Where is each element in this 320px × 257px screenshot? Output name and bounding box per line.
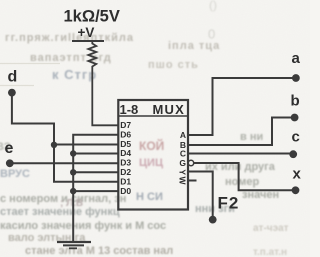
svg-text:гг.пряж.­гиllеяпткйла: гг.пряж.­гиllеяпткйла [5,32,134,44]
svg-text:(): () [209,0,217,12]
svg-text:в ни: в ни [240,131,263,143]
svg-text:КОЙ: КОЙ [139,138,164,153]
svg-text:e: e [5,140,14,157]
svg-text:x: x [293,166,302,183]
svg-text:; Л.В: ; Л.В [60,198,83,209]
svg-text:стане элта М 13 состав нал: стане элта М 13 состав нал [25,245,173,257]
svg-text:MUX: MUX [153,102,186,117]
svg-text:т.п.ат.н: т.п.ат.н [253,247,287,257]
svg-text:a: a [292,50,301,67]
svg-text:іпла тца: іпла тца [168,40,220,52]
svg-text:0: 0 [208,27,215,42]
svg-text:номер: номер [225,176,259,188]
svg-text:F2: F2 [218,194,240,213]
svg-text:D0: D0 [120,186,131,196]
svg-text:d: d [8,68,18,85]
svg-text:C: C [180,149,186,159]
svg-text:G: G [179,158,186,168]
svg-text:+V: +V [78,25,95,40]
svg-text:к Стгр: к Стгр [52,67,97,82]
svg-text:b: b [291,93,300,110]
svg-text:касило значения функ и М сос: касило значения функ и М сос [0,220,166,232]
svg-text:вапаэтпт ргд: вапаэтпт ргд [30,52,112,64]
svg-text:Y: Y [178,169,188,175]
svg-text:Н СИ: Н СИ [136,191,163,203]
svg-text:пшо сть: пшо сть [148,59,199,71]
svg-text:c: c [292,129,300,146]
svg-text:1kΩ/5V: 1kΩ/5V [64,8,120,26]
svg-text:ат-чэат: ат-чэат [253,223,289,234]
svg-text:A: A [180,130,186,140]
svg-text:ЦИЦ: ЦИЦ [139,157,163,169]
svg-text:W: W [178,176,188,185]
svg-text:ВРУС: ВРУС [0,168,30,180]
svg-text:1-8: 1-8 [120,102,139,117]
